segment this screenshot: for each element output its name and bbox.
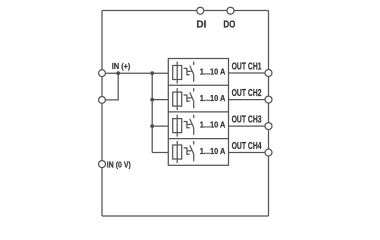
wire right bus (OUT common rail)	[268, 11, 270, 217]
svg-text:1...10 A: 1...10 A	[200, 120, 226, 130]
terminal OUT CH3	[265, 123, 272, 130]
svg-text:DO: DO	[223, 19, 235, 30]
svg-text:OUT CH1: OUT CH1	[232, 60, 262, 72]
terminal OUT CH2	[265, 96, 272, 103]
fuse F1	[173, 62, 182, 84]
svg-text:IN (+): IN (+)	[112, 62, 131, 71]
svg-text:IN (0 V): IN (0 V)	[107, 160, 131, 170]
wire left bus (IN rail)	[101, 11, 103, 217]
fuse F3	[173, 115, 182, 137]
breaker contact S3	[184, 115, 194, 135]
wire IN (+) feed	[102, 72, 168, 74]
wire output channel 1	[229, 72, 269, 74]
svg-text:OUT CH2: OUT CH2	[232, 87, 262, 99]
wire link to second IN (+) terminal	[102, 73, 118, 100]
svg-text:DI: DI	[196, 20, 206, 31]
junction node channel 1 tap	[150, 71, 154, 75]
junction node channel 3 tap	[150, 124, 154, 128]
fuse F4	[173, 141, 182, 163]
svg-text:1...10 A: 1...10 A	[200, 67, 226, 77]
terminal IN (+) lower	[99, 97, 106, 104]
terminal OUT CH4	[265, 149, 272, 156]
wire output channel 4	[229, 152, 269, 154]
breaker contact S1	[184, 62, 194, 82]
svg-text:OUT CH3: OUT CH3	[232, 113, 262, 125]
junction node IN(+) / 0V-link	[116, 71, 120, 75]
svg-text:1...10 A: 1...10 A	[200, 147, 226, 157]
breaker contact S2	[184, 88, 194, 108]
wire stub channel 2	[152, 99, 168, 101]
divider channel 1/2	[168, 84, 228, 86]
wire stub channel 4	[152, 152, 168, 154]
divider channel 2/3	[168, 111, 228, 113]
junction node channel 2 tap	[150, 98, 154, 102]
wire bottom return	[102, 215, 269, 217]
wire output channel 2	[229, 99, 269, 101]
terminal DI	[197, 7, 204, 14]
breaker module box	[168, 59, 228, 166]
divider channel 3/4	[168, 138, 228, 140]
svg-text:OUT CH4: OUT CH4	[232, 140, 262, 152]
terminal OUT CH1	[265, 70, 272, 77]
wire top bus	[102, 10, 269, 12]
fuse F2	[173, 88, 182, 110]
terminal IN (0 V)	[99, 161, 106, 168]
wire distribution bus	[151, 73, 153, 152]
svg-text:1...10 A: 1...10 A	[200, 94, 226, 104]
terminal IN (+) upper	[99, 70, 106, 77]
breaker contact S4	[184, 141, 194, 161]
wire output channel 3	[229, 125, 269, 127]
wire stub channel 3	[152, 125, 168, 127]
terminal DO	[227, 7, 234, 14]
